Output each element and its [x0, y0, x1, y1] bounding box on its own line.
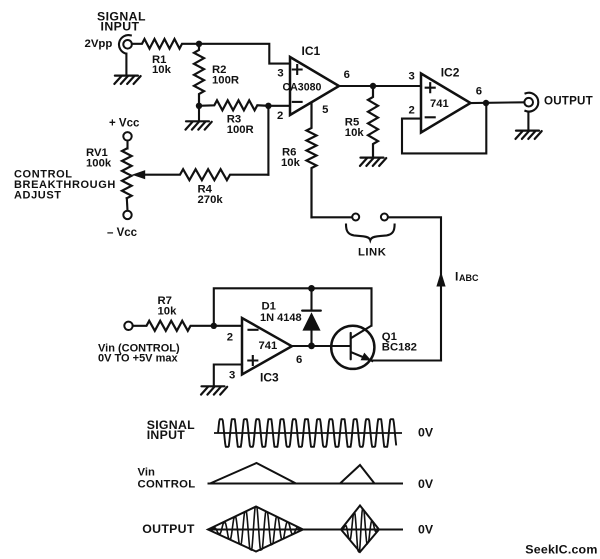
op-amp IC2 741 triangle	[421, 74, 471, 133]
control breakthrough adjust label	[14, 169, 116, 202]
LINK brace	[346, 225, 395, 241]
svg-text:CONTROL: CONTROL	[138, 478, 196, 490]
svg-text:6: 6	[476, 86, 482, 98]
R4 value label	[198, 184, 224, 207]
svg-text:10k: 10k	[281, 157, 301, 169]
svg-text:0V TO +5V max: 0V TO +5V max	[98, 352, 178, 364]
svg-text:3: 3	[277, 68, 283, 80]
svg-text:741: 741	[430, 98, 449, 110]
svg-text:10k: 10k	[345, 127, 365, 139]
wire junction to IC3 pin 2	[214, 325, 242, 327]
svg-text:D1: D1	[262, 301, 276, 313]
junction node R7 / IC3 pin2 / feedback	[211, 323, 217, 329]
svg-text:2: 2	[277, 110, 283, 122]
svg-text:741: 741	[259, 340, 278, 352]
svg-text:270k: 270k	[198, 194, 224, 206]
IC1 non-inverting + symbol	[293, 65, 302, 74]
svg-text:10k: 10k	[158, 306, 178, 318]
svg-text:BC182: BC182	[382, 342, 417, 354]
svg-text:ABC: ABC	[459, 273, 479, 283]
IC2 feedback wire pin2 to output	[402, 103, 486, 153]
output modulated sine 2	[343, 509, 379, 552]
svg-text:ADJUST: ADJUST	[14, 190, 62, 202]
R7 value label	[158, 295, 178, 318]
IC2 inverting - symbol	[426, 116, 435, 118]
resistor R6 10k on IC1 pin 5	[307, 103, 317, 218]
D1 label	[260, 301, 302, 325]
resistor R1 10k	[132, 39, 199, 49]
resistor R5 10k	[368, 86, 378, 157]
IC3 non-inverting + symbol	[248, 356, 257, 365]
junction node D1 cathode / rail	[308, 285, 315, 292]
RV1 bottom terminal	[123, 198, 131, 219]
svg-text:0V: 0V	[418, 426, 434, 440]
RV1 wiper arrow	[132, 170, 145, 179]
wire IC2 output to jack	[471, 101, 525, 104]
IABC current direction arrow	[436, 272, 445, 287]
junction node IC1 out / R5	[370, 83, 376, 89]
svg-text:3: 3	[409, 71, 415, 83]
svg-text:IC3: IC3	[260, 371, 279, 385]
transistor Q1 BC182	[331, 326, 374, 369]
wire R4 to IC1 pin2 junction	[267, 106, 269, 175]
junction node R2/R3/ground	[196, 103, 202, 109]
svg-text:0V: 0V	[418, 522, 434, 536]
wire IC1 output to IC2 input	[339, 85, 421, 87]
LINK switch terminal circles	[352, 214, 388, 221]
svg-text:5: 5	[322, 104, 328, 116]
svg-text:2: 2	[409, 105, 415, 117]
svg-text:CA3080: CA3080	[283, 82, 322, 94]
IC1 inverting - symbol	[293, 101, 302, 103]
resistor R2 100R	[194, 44, 204, 106]
ground (input jack)	[114, 76, 140, 84]
output envelope diamond 2	[341, 506, 379, 553]
junction node IC1 pin2 / R4	[265, 103, 271, 109]
svg-text:Vin: Vin	[138, 467, 155, 479]
signal input waveform label	[147, 418, 195, 442]
Vin control input terminal	[124, 322, 132, 330]
svg-text:100R: 100R	[212, 75, 239, 87]
output envelope diamond 1	[208, 507, 303, 552]
junction node IC2 output	[483, 100, 489, 106]
signal input waveform baseline	[214, 432, 402, 434]
op-amp IC1 CA3080 triangle	[290, 57, 339, 115]
svg-text:0V: 0V	[418, 477, 434, 491]
junction node R1/R2/IC1	[196, 41, 202, 47]
Vin control waveform baseline	[208, 483, 404, 485]
potentiometer RV1 100k	[122, 149, 132, 199]
wire IC3 output to Q1 base	[292, 345, 349, 347]
svg-text:+ Vcc: + Vcc	[109, 118, 140, 130]
Q1 label	[382, 331, 417, 354]
svg-text:OUTPUT: OUTPUT	[544, 95, 593, 108]
output modulated sine 1	[211, 507, 302, 551]
svg-text:I: I	[455, 270, 458, 284]
svg-text:6: 6	[296, 354, 302, 366]
feedback rail wire to D1 cathode and Q1 collector	[214, 288, 372, 326]
wire junction to IC1 pin 2	[268, 105, 290, 107]
RV1 value label	[86, 147, 112, 170]
diode D1 1N4148	[302, 288, 321, 346]
IABC label	[455, 270, 479, 284]
svg-text:SeekIC.com: SeekIC.com	[525, 542, 597, 556]
svg-text:INPUT: INPUT	[147, 428, 186, 442]
svg-text:1N 4148: 1N 4148	[260, 312, 302, 324]
Vin control waveform label	[138, 467, 196, 491]
wire LINK to IABC net	[388, 217, 441, 360]
ground (R2/R3 node)	[186, 106, 212, 130]
svg-text:IC2: IC2	[441, 66, 460, 80]
output jack connector	[524, 93, 538, 131]
svg-text:3: 3	[229, 370, 235, 382]
wire R1 junction to IC1 pin 3	[199, 44, 290, 64]
svg-text:INPUT: INPUT	[101, 20, 140, 34]
wire Q1 emitter to IABC net	[372, 359, 441, 361]
junction node D1 anode	[308, 343, 315, 350]
svg-text:100k: 100k	[86, 158, 112, 170]
Vin control triangle waveform	[210, 463, 375, 484]
ground (R5)	[360, 158, 386, 166]
svg-text:2Vpp: 2Vpp	[85, 38, 113, 50]
resistor R7 10k	[133, 321, 214, 331]
wire IC3 pin 3 to ground	[214, 365, 242, 387]
svg-text:LINK: LINK	[358, 247, 387, 259]
resistor R4 270k	[145, 169, 269, 180]
svg-text:6: 6	[344, 69, 350, 81]
ground (IC3 pin 3)	[201, 386, 227, 394]
signal input sine wave	[218, 419, 396, 447]
op-amp IC3 741 triangle	[242, 318, 292, 375]
RV1 top terminal	[123, 132, 131, 148]
ground (output jack)	[516, 131, 542, 139]
IC3 inverting - symbol	[249, 329, 258, 331]
svg-text:10k: 10k	[152, 64, 172, 76]
svg-text:100R: 100R	[227, 124, 254, 136]
svg-text:– Vcc: – Vcc	[107, 227, 138, 239]
wire R6 to LINK left terminal	[312, 216, 353, 218]
svg-text:2: 2	[227, 332, 233, 344]
input jack J1	[119, 35, 132, 75]
resistor R3 100R	[199, 100, 268, 110]
svg-text:IC1: IC1	[302, 44, 321, 58]
IC2 non-inverting + symbol	[426, 83, 435, 92]
output waveform baseline	[208, 529, 404, 531]
Vin control label	[98, 342, 180, 364]
svg-text:OUTPUT: OUTPUT	[142, 522, 195, 536]
